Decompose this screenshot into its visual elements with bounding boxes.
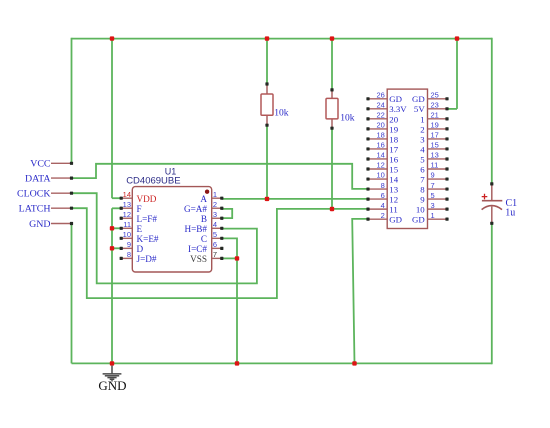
wire VCC top rail xyxy=(72,38,492,40)
connector pin 26 (GD) xyxy=(368,98,387,100)
svg-text:9: 9 xyxy=(431,171,435,180)
svg-text:6: 6 xyxy=(420,164,425,174)
connector pin 15 (4) xyxy=(428,148,448,150)
U1 pin-1 marker dot xyxy=(205,190,209,194)
svg-text:12: 12 xyxy=(123,210,131,219)
wire GND label drop xyxy=(71,224,73,364)
svg-text:16: 16 xyxy=(376,141,384,150)
svg-text:13: 13 xyxy=(431,151,439,160)
svg-text:GD: GD xyxy=(389,94,402,104)
wire U1 pin2 to pin3 loop xyxy=(222,209,232,218)
ground symbol xyxy=(103,366,122,381)
svg-text:8: 8 xyxy=(127,250,131,259)
wire R1 bottom to node xyxy=(266,125,268,199)
svg-text:3.3V: 3.3V xyxy=(389,104,407,114)
svg-text:16: 16 xyxy=(389,154,398,164)
svg-text:22: 22 xyxy=(376,111,384,120)
connector pin 10 (14) xyxy=(368,178,387,180)
U1 pin 6 (I=C#) xyxy=(212,247,222,249)
connector pin 11 (6) xyxy=(428,168,448,170)
svg-text:E: E xyxy=(137,224,143,234)
wire to U1 pin 9 xyxy=(112,247,120,249)
svg-text:3: 3 xyxy=(213,210,217,219)
wire CLOCK net to U1 pin 4 xyxy=(72,193,257,283)
wire R1 top lead from rail xyxy=(266,39,268,84)
wire to U1 pin 11 xyxy=(112,227,120,229)
U1 pin 4 (H=B#) xyxy=(212,227,222,229)
svg-text:21: 21 xyxy=(431,111,439,120)
svg-text:7: 7 xyxy=(213,250,217,259)
U1 pin 2 (G=A#) xyxy=(212,207,222,209)
connector pin 13 (5) xyxy=(428,158,448,160)
connector pin 20 (19) xyxy=(368,128,387,130)
connector pin 7 (8) xyxy=(428,188,448,190)
U1 pin 13 (F) xyxy=(121,207,132,209)
wire GND bottom rail xyxy=(72,362,492,364)
wire R2 top lead from rail xyxy=(331,39,333,90)
svg-text:5: 5 xyxy=(431,191,435,200)
U1 pin 12 (L=F#) xyxy=(121,217,132,219)
svg-text:2: 2 xyxy=(213,200,217,209)
svg-text:19: 19 xyxy=(389,124,398,134)
svg-text:25: 25 xyxy=(431,91,439,100)
svg-text:VCC: VCC xyxy=(30,159,51,170)
svg-text:6: 6 xyxy=(381,191,385,200)
svg-text:12: 12 xyxy=(389,195,398,205)
connector pin 16 (17) xyxy=(368,148,387,150)
U1 pin 10 (K=E#) xyxy=(121,237,132,239)
svg-text:GD: GD xyxy=(412,94,425,104)
connector pin 17 (3) xyxy=(428,138,448,140)
wire to connector pin 23 xyxy=(447,108,457,110)
svg-text:L=F#: L=F# xyxy=(137,214,158,224)
wire U1 pin5 to ground rail xyxy=(222,238,237,363)
wire U1 pin1 node to connector pin 6 xyxy=(222,198,367,200)
connector pin 9 (7) xyxy=(428,178,448,180)
svg-text:VSS: VSS xyxy=(190,254,207,264)
svg-text:G=A#: G=A# xyxy=(184,204,207,214)
svg-text:GD: GD xyxy=(412,215,425,225)
net flag DATA xyxy=(51,177,72,179)
svg-text:8: 8 xyxy=(381,181,385,190)
svg-text:10: 10 xyxy=(123,230,131,239)
svg-text:1u: 1u xyxy=(505,208,515,219)
junction pin9 / ground bus xyxy=(110,246,114,250)
wire VCC label riser xyxy=(71,38,73,164)
svg-text:DATA: DATA xyxy=(25,173,51,184)
op-amp U1 CD4069UBE body xyxy=(132,187,211,272)
connector pin 1 (GD) xyxy=(428,218,448,220)
svg-text:9: 9 xyxy=(420,195,425,205)
wire R2 bottom to node xyxy=(331,128,333,209)
U1 pin 8 (J=D#) xyxy=(121,257,132,259)
U1 pin 11 (E) xyxy=(121,227,132,229)
connector pin 19 (2) xyxy=(428,128,448,130)
capacitor C1 polarized xyxy=(491,184,493,200)
wire connector pin2 GD to rail xyxy=(352,219,367,364)
junction R1 / pin1 node xyxy=(265,197,269,201)
C1 plus sign xyxy=(482,194,488,200)
U1 pin 7 (VSS) xyxy=(212,257,222,259)
svg-text:4: 4 xyxy=(381,201,385,210)
wire to U1 pin 14 xyxy=(112,197,121,199)
svg-text:14: 14 xyxy=(389,174,398,184)
svg-text:3: 3 xyxy=(420,134,425,144)
svg-text:CD4069UBE: CD4069UBE xyxy=(126,176,180,187)
svg-text:CLOCK: CLOCK xyxy=(17,189,51,200)
resistor R1 10k xyxy=(266,84,268,94)
svg-text:17: 17 xyxy=(431,131,439,140)
connector pin 6 (12) xyxy=(368,198,387,200)
svg-text:2: 2 xyxy=(420,124,424,134)
connector J1 26-pin header body xyxy=(387,89,427,228)
wire U1 pin7 VSS to bus xyxy=(222,257,237,259)
U1 pin 3 (B) xyxy=(212,217,222,219)
svg-text:5V: 5V xyxy=(414,104,425,114)
U1 pin 1 (A) xyxy=(212,197,222,199)
connector pin 5 (9) xyxy=(428,198,448,200)
svg-text:4: 4 xyxy=(213,220,217,229)
svg-text:1: 1 xyxy=(213,190,217,199)
svg-text:20: 20 xyxy=(376,121,384,130)
svg-text:1: 1 xyxy=(420,114,424,124)
junction on VCC rail xyxy=(265,36,269,40)
svg-text:12: 12 xyxy=(376,161,384,170)
svg-text:2: 2 xyxy=(381,211,385,220)
connector pin 18 (18) xyxy=(368,138,387,140)
svg-text:10k: 10k xyxy=(340,113,355,123)
svg-text:10: 10 xyxy=(376,171,384,180)
connector pin 23 (5V) xyxy=(428,108,448,110)
svg-text:17: 17 xyxy=(389,144,398,154)
svg-text:GD: GD xyxy=(389,215,402,225)
svg-text:10k: 10k xyxy=(274,108,289,118)
connector pin 21 (1) xyxy=(428,118,448,120)
svg-text:GND: GND xyxy=(98,378,126,393)
svg-text:18: 18 xyxy=(376,131,384,140)
svg-text:4: 4 xyxy=(420,144,425,154)
connector pin 24 (3.3V) xyxy=(368,108,387,110)
svg-text:11: 11 xyxy=(431,161,439,170)
svg-text:18: 18 xyxy=(389,134,398,144)
connector pin 14 (16) xyxy=(368,158,387,160)
junction on VCC rail xyxy=(330,36,334,40)
svg-text:5: 5 xyxy=(420,154,425,164)
connector pin 3 (10) xyxy=(428,208,448,210)
connector pin 22 (20) xyxy=(368,118,387,120)
connector pin 8 (13) xyxy=(368,188,387,190)
svg-text:11: 11 xyxy=(389,205,397,215)
svg-text:1: 1 xyxy=(431,211,435,220)
junction GND rail at ground symbol xyxy=(110,361,114,365)
svg-text:23: 23 xyxy=(431,101,439,110)
svg-text:VDD: VDD xyxy=(137,194,157,204)
svg-text:13: 13 xyxy=(389,184,398,194)
svg-text:B: B xyxy=(201,214,207,224)
svg-text:6: 6 xyxy=(213,240,217,249)
svg-text:GND: GND xyxy=(29,219,50,230)
U1 pin 5 (C) xyxy=(212,237,222,239)
net flag CLOCK xyxy=(51,192,72,194)
U1 pin 14 (VDD) xyxy=(121,197,132,199)
svg-text:K=E#: K=E# xyxy=(137,234,159,244)
svg-text:9: 9 xyxy=(127,240,131,249)
svg-text:24: 24 xyxy=(376,101,384,110)
junction on VCC rail xyxy=(110,36,114,40)
svg-text:7: 7 xyxy=(420,174,425,184)
svg-text:8: 8 xyxy=(420,184,425,194)
connector pin 25 (GD) xyxy=(428,98,448,100)
svg-text:7: 7 xyxy=(431,181,435,190)
wire to U1 pin 13 xyxy=(112,207,121,209)
svg-text:14: 14 xyxy=(123,190,131,199)
svg-text:14: 14 xyxy=(376,151,384,160)
wire rail to C1 top xyxy=(491,38,493,184)
svg-text:F: F xyxy=(137,204,142,214)
svg-text:A: A xyxy=(200,194,207,204)
svg-text:5: 5 xyxy=(213,230,217,239)
net flag GND xyxy=(51,223,72,225)
wire DATA net to connector pin 8 xyxy=(72,164,368,189)
svg-text:J=D#: J=D# xyxy=(137,254,157,264)
wire LATCH net to connector pin 4 xyxy=(72,208,368,298)
svg-text:19: 19 xyxy=(431,121,439,130)
svg-text:3: 3 xyxy=(431,201,435,210)
connector pin 4 (11) xyxy=(368,208,387,210)
wire C1 bottom to rail xyxy=(491,223,493,364)
junction VSS / ground bus xyxy=(235,256,239,260)
resistor R2 10k xyxy=(331,90,333,99)
connector pin 2 (GD) xyxy=(368,218,387,220)
svg-text:11: 11 xyxy=(123,220,131,229)
junction GND rail x=237 xyxy=(235,361,239,365)
svg-text:15: 15 xyxy=(389,164,398,174)
U1 pin 9 (D) xyxy=(121,247,132,249)
wire 5V branch down xyxy=(456,39,458,109)
svg-text:LATCH: LATCH xyxy=(19,204,51,215)
junction R2 / LATCH node xyxy=(330,207,334,211)
junction GND rail x=354 xyxy=(352,361,356,365)
wire VDD branch x=112 xyxy=(111,39,113,199)
svg-text:10: 10 xyxy=(416,205,425,215)
net flag VCC xyxy=(51,162,72,164)
connector pin 12 (15) xyxy=(368,168,387,170)
svg-text:H=B#: H=B# xyxy=(184,224,207,234)
svg-text:13: 13 xyxy=(123,200,131,209)
net flag LATCH xyxy=(51,207,72,209)
junction pin11 / ground bus xyxy=(110,226,114,230)
junction on VCC rail xyxy=(455,36,459,40)
svg-text:D: D xyxy=(137,244,144,254)
svg-text:I=C#: I=C# xyxy=(188,244,207,254)
svg-text:20: 20 xyxy=(389,114,398,124)
svg-text:26: 26 xyxy=(376,91,384,100)
wire U1 input-ground bus x=112 xyxy=(111,208,113,363)
svg-text:15: 15 xyxy=(431,141,439,150)
svg-text:C: C xyxy=(201,234,207,244)
